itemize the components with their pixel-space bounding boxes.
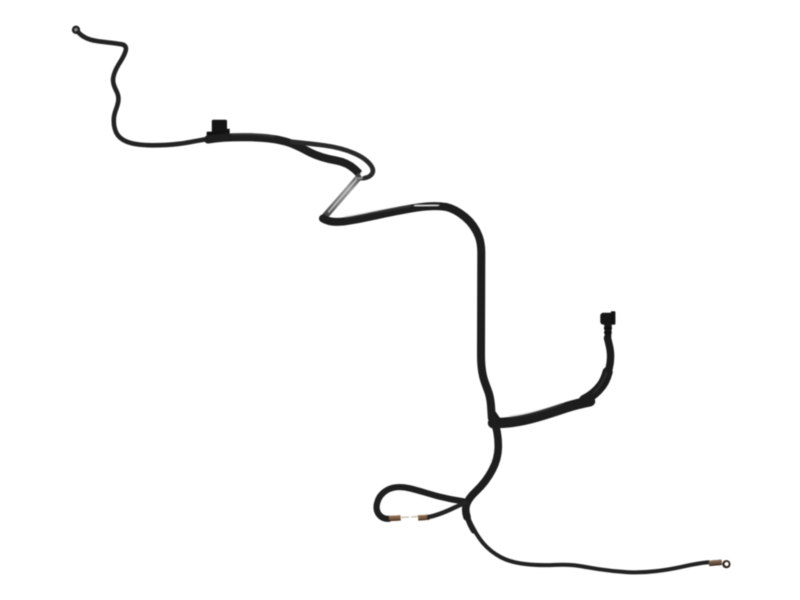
thin hose from cap to clip bbox=[79, 33, 210, 146]
fat bend where tubes merge bbox=[584, 372, 608, 400]
bend taper bbox=[466, 506, 474, 531]
top sheen of horizontal tube bbox=[510, 404, 562, 417]
long wire from bend to ring terminal bbox=[471, 524, 709, 572]
junction spike bbox=[493, 412, 502, 420]
clip (black plastic retainer) bbox=[207, 120, 230, 139]
metal diagonal tube bbox=[323, 177, 360, 219]
faint pipe between tips bbox=[402, 516, 419, 519]
specular blob at metal tube top bbox=[360, 171, 364, 176]
rising tube to right connector bbox=[586, 338, 611, 399]
thin loop strand (upper arc with hook) bbox=[292, 142, 373, 178]
right connector (angled fitting) bbox=[600, 311, 615, 337]
hose end cap (top-left open tube end) bbox=[73, 27, 80, 34]
copper tip A bbox=[389, 515, 401, 521]
horizontal thick tube from junction to right bbox=[493, 401, 590, 423]
elbow to hump to vertical tube bbox=[323, 206, 492, 418]
stub from tip B to behind bend bbox=[429, 503, 465, 517]
gray hook tip bbox=[356, 176, 361, 179]
hairpin loop (top strand around left end to copper tip A) bbox=[377, 487, 464, 519]
sheen on thick strand bbox=[232, 134, 274, 136]
ring terminal crimp bbox=[709, 560, 722, 567]
thick hose strand from clip to loop bottom bbox=[208, 137, 359, 173]
hump specular highlight bbox=[415, 204, 438, 207]
hump top sheen bbox=[345, 206, 410, 218]
descending tube from junction to loop bend bbox=[466, 419, 499, 517]
copper tip B bbox=[418, 515, 429, 521]
ring terminal eye bbox=[722, 560, 730, 568]
